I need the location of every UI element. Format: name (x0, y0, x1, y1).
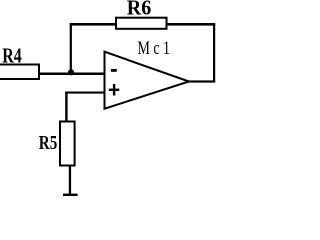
svg-text:R4: R4 (2, 43, 22, 67)
svg-text:M c 1: M c 1 (138, 38, 171, 59)
svg-text:R5: R5 (39, 132, 58, 154)
svg-text:R6: R6 (127, 0, 152, 20)
